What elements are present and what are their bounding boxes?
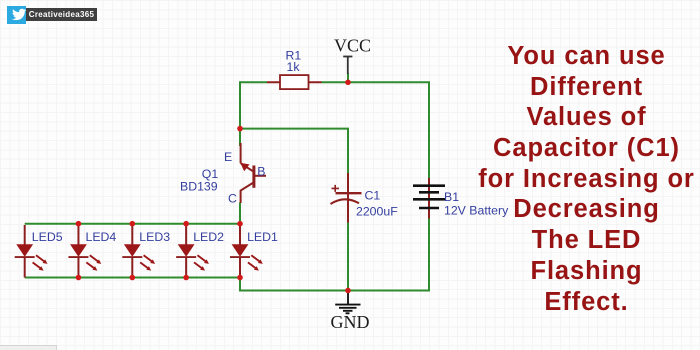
twitter bird xyxy=(11,9,26,20)
svg-text:LED1: LED1 xyxy=(247,230,278,244)
wire: LED rail jog down to ground rail xyxy=(239,278,241,291)
svg-text:1k: 1k xyxy=(287,60,301,74)
junction dot LED2 cathode xyxy=(183,275,189,281)
svg-text:LED4: LED4 xyxy=(86,230,117,244)
svg-text:VCC: VCC xyxy=(334,36,371,56)
LED LED4 xyxy=(68,225,101,278)
svg-text:B1: B1 xyxy=(444,190,459,204)
wire: left vertical R1 to emitter node xyxy=(239,81,241,128)
wire: emitter node horizontal to capacitor xyxy=(240,129,348,173)
junction dot ground node xyxy=(345,288,351,294)
LED LED3 xyxy=(122,225,155,278)
svg-text:12V Battery: 12V Battery xyxy=(444,204,509,218)
svg-text:BD139: BD139 xyxy=(180,180,218,194)
wire: LED bottom rail xyxy=(25,277,240,279)
junction dot LED3 anode xyxy=(130,221,136,227)
junction dot LED1 cathode xyxy=(237,275,243,281)
vcc symbol xyxy=(343,57,352,75)
svg-text:B: B xyxy=(257,164,265,178)
junction dot LED3 cathode xyxy=(130,275,136,281)
twitter logo square xyxy=(7,6,26,24)
svg-text:GND: GND xyxy=(331,312,370,332)
svg-text:2200uF: 2200uF xyxy=(356,205,398,219)
svg-text:LED2: LED2 xyxy=(193,230,224,244)
junction dot VCC node xyxy=(345,80,351,86)
svg-text:C: C xyxy=(228,191,237,205)
wire: ground rail to battery bottom xyxy=(239,219,429,291)
capacitor C1 xyxy=(331,173,362,223)
red caption text xyxy=(461,41,700,317)
ground symbol xyxy=(335,291,360,313)
svg-text:C1: C1 xyxy=(365,189,381,203)
LED LED2 xyxy=(176,225,209,278)
junction dot LED2 anode xyxy=(183,221,189,227)
LED LED1 xyxy=(230,225,263,278)
LED LED5 xyxy=(15,225,48,278)
transistor Q1 xyxy=(240,143,266,203)
bottom-left ui fragment xyxy=(0,345,57,350)
junction dot LED1 anode / collector xyxy=(237,221,243,227)
wire: top rail right segment to battery corner xyxy=(322,82,430,178)
svg-text:LED5: LED5 xyxy=(32,230,63,244)
svg-text:LED3: LED3 xyxy=(139,230,170,244)
wire: emitter stub xyxy=(239,129,241,146)
wire: LED top rail xyxy=(25,223,240,225)
battery B1 xyxy=(413,178,445,219)
junction dot LED4 anode xyxy=(76,221,82,227)
junction dot emitter node xyxy=(237,126,243,132)
junction dot LED4 cathode xyxy=(76,275,82,281)
resistor R1 xyxy=(267,75,322,89)
channel name box xyxy=(26,8,97,21)
wire: capacitor bottom to ground rail xyxy=(347,223,349,291)
wire: VCC pin green stub xyxy=(347,73,349,82)
wire: top rail left segment (node VCC) xyxy=(240,81,267,83)
wire: collector to LED rail xyxy=(239,203,241,224)
svg-text:E: E xyxy=(224,150,232,164)
